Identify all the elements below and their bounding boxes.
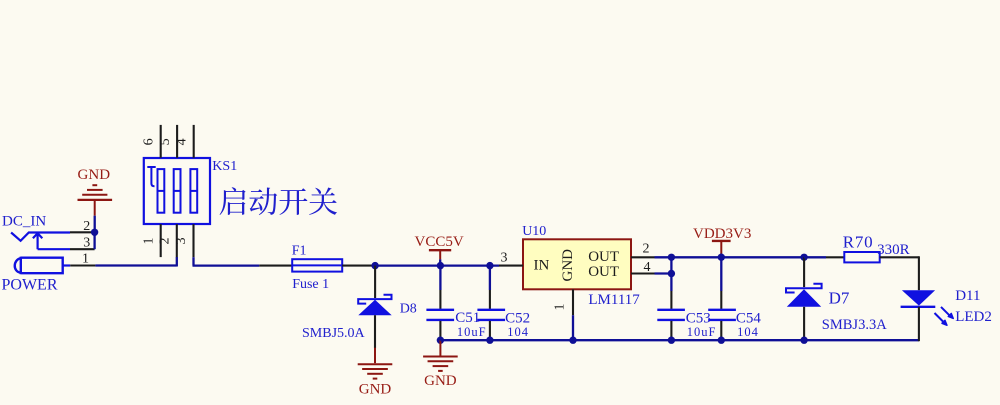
junction node C5/GND on bottom rail (437, 337, 444, 344)
svg-text:SMBJ3.3A: SMBJ3.3A (822, 317, 887, 333)
wire D7 to R70 (804, 256, 826, 258)
svg-text:F1: F1 (292, 244, 307, 259)
svg-text:DC_IN: DC_IN (2, 214, 46, 230)
svg-text:D8: D8 (400, 301, 417, 316)
switch slider 3 (190, 169, 197, 213)
pin 3 of KS1 (174, 224, 193, 257)
pin 2 of KS1 (157, 224, 176, 257)
pin 2 of DC_IN (70, 219, 95, 234)
junction node C52 top (486, 262, 493, 269)
svg-text:3: 3 (501, 251, 508, 266)
ground at C5 (423, 340, 458, 389)
svg-text:C53: C53 (686, 310, 711, 326)
pin 1 of DC_IN (70, 251, 95, 266)
svg-text:U10: U10 (522, 224, 546, 239)
LED D11 lower pin (918, 307, 920, 341)
wire GND to DC_IN pin2 (94, 216, 96, 233)
svg-text:KS1: KS1 (212, 159, 237, 174)
junction node D7 top (800, 254, 807, 261)
fuse F1 (292, 244, 343, 292)
wire C54 to rail (720, 337, 722, 340)
svg-text:LED2: LED2 (955, 309, 992, 325)
wire VDD rail (655, 256, 805, 258)
svg-text:C51: C51 (455, 310, 480, 326)
capacitor C5 (10uF) (426, 290, 486, 339)
pin 2 of U10 (631, 242, 655, 258)
regulator U10 LM1117 (522, 224, 640, 308)
LED D11 (LED2) (901, 288, 992, 326)
ground at D8 (358, 348, 393, 398)
pin 4 of U10 (631, 260, 655, 275)
junction node pin4 (668, 270, 675, 277)
svg-text:LM1117: LM1117 (588, 292, 640, 308)
svg-text:VCC5V: VCC5V (415, 234, 464, 250)
pin 5 of KS1 (158, 125, 177, 158)
wire U10 pin1 to rail (572, 315, 574, 340)
fuse F1 right pin (342, 265, 375, 267)
svg-text:D11: D11 (955, 288, 980, 304)
svg-text:IN: IN (534, 258, 550, 274)
svg-text:10uF: 10uF (457, 325, 487, 339)
svg-text:104: 104 (507, 325, 529, 339)
switch slider 2 (174, 169, 181, 213)
svg-text:4: 4 (175, 138, 190, 145)
switch KS1 box (144, 158, 210, 224)
connector DC_IN (2, 214, 71, 294)
svg-text:1: 1 (82, 251, 89, 266)
junction node C53 bottom (668, 337, 675, 344)
svg-text:330R: 330R (877, 242, 910, 258)
switch lever T mark (147, 167, 155, 186)
label 启动开关 (start switch) (220, 187, 337, 215)
svg-text:GND: GND (78, 167, 111, 183)
junction node VCC rail at D8 (371, 262, 378, 269)
svg-text:SMBJ5.0A: SMBJ5.0A (302, 326, 366, 341)
svg-text:2: 2 (83, 219, 90, 234)
svg-text:D7: D7 (829, 289, 850, 308)
diode D7 lower pin (803, 307, 805, 340)
resistor R70 (330R) (843, 233, 910, 263)
LED D11 upper pin (918, 256, 920, 290)
pin 1 of KS1 (141, 224, 160, 257)
wire switch pin3 to fuse (193, 257, 260, 265)
pin 6 of KS1 (142, 125, 161, 158)
resistor R70 right pin (880, 256, 919, 258)
svg-text:OUT: OUT (588, 264, 619, 280)
svg-text:104: 104 (737, 325, 759, 339)
pin 4 of KS1 (175, 125, 194, 158)
pin 3 of U10 (499, 251, 523, 266)
svg-text:1: 1 (553, 304, 568, 311)
svg-text:GND: GND (560, 249, 576, 282)
capacitor C52 branch wire (489, 266, 491, 290)
pin 1 of U10 (553, 289, 574, 315)
capacitor C52 (104) (477, 290, 530, 339)
wire C5 to rail (439, 337, 441, 340)
junction node VDD3V3 (718, 254, 725, 261)
svg-text:GND: GND (424, 373, 457, 389)
svg-text:C54: C54 (736, 310, 762, 326)
capacitor C5 branch wire (439, 266, 441, 290)
diode D8 upper pin (374, 266, 376, 298)
wire pin4 to C53 branch (655, 257, 672, 291)
diode D8 (TVS SMBJ5.0A) (302, 295, 417, 341)
wire fuse to U10 pin3 (375, 264, 499, 266)
svg-text:3: 3 (83, 236, 90, 251)
pin 3 of DC_IN (70, 236, 95, 251)
capacitor C53 (10uF) (657, 291, 716, 339)
junction node C52 bottom (486, 337, 493, 344)
designator KS1 (212, 159, 237, 174)
diode D8 lower pin (374, 315, 376, 348)
junction node VCC5V (437, 262, 444, 269)
svg-text:3: 3 (174, 238, 189, 245)
wire pin2 to pin3 (93, 232, 95, 249)
ground GND (top-left, rotated 180) (78, 167, 113, 216)
svg-text:2: 2 (643, 242, 650, 257)
svg-text:Fuse 1: Fuse 1 (292, 277, 329, 292)
junction node U10 pin1 (569, 337, 576, 344)
switch slider 1 (158, 169, 165, 213)
junction node D7 bottom (800, 337, 807, 344)
svg-text:C52: C52 (505, 310, 530, 326)
junction node C54 bottom (718, 337, 725, 344)
svg-text:OUT: OUT (588, 249, 619, 265)
capacitor C54 (104) (708, 291, 761, 339)
diode D7 (TVS SMBJ3.3A) (786, 284, 887, 334)
svg-text:2: 2 (157, 238, 172, 245)
diode D7 upper pin (803, 257, 805, 287)
svg-text:VDD3V3: VDD3V3 (693, 226, 751, 242)
svg-text:GND: GND (359, 382, 392, 398)
power net VDD3V3 (693, 226, 751, 257)
wire C52 to rail (489, 337, 491, 340)
wire POWER pin1 to switch pin2 (95, 257, 176, 267)
svg-text:4: 4 (644, 260, 651, 275)
power net VCC5V (415, 234, 464, 266)
junction node at DC_IN pin2 (91, 229, 98, 236)
resistor R70 left pin (826, 256, 844, 258)
fuse F1 left pin (259, 265, 292, 267)
wire C53 to rail (670, 337, 672, 340)
svg-text:R70: R70 (843, 233, 874, 252)
svg-text:10uF: 10uF (687, 325, 717, 339)
svg-text:5: 5 (158, 138, 173, 145)
junction node pin2/C53 (668, 254, 675, 261)
svg-text:POWER: POWER (2, 276, 58, 293)
svg-text:1: 1 (141, 238, 156, 245)
wire VDD to C54 (720, 257, 722, 291)
svg-text:6: 6 (142, 138, 157, 145)
wire bottom GND rail (440, 339, 919, 341)
